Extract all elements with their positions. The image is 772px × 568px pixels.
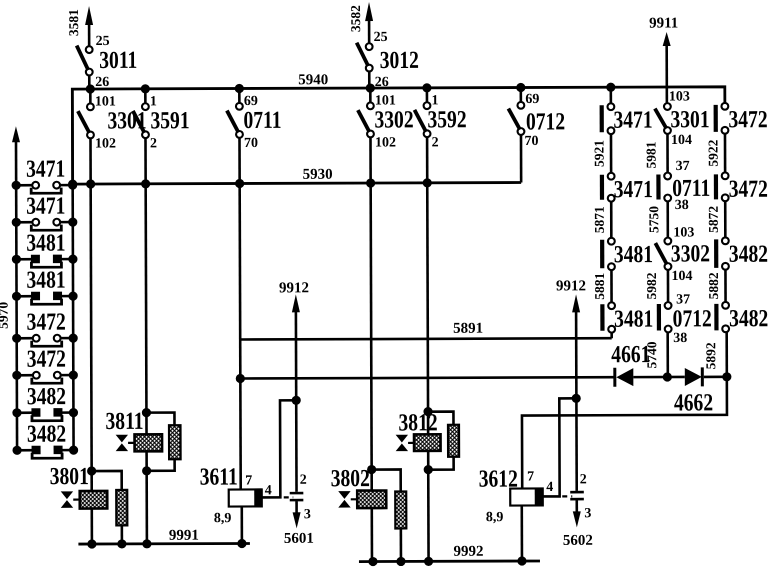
wire coil 3811 down to bus 9991 <box>145 451 148 543</box>
wire 5750 <box>666 202 669 238</box>
pin 70 of 0711 <box>244 136 258 151</box>
switch 0712 <box>508 102 565 135</box>
svg-text:5891: 5891 <box>453 321 483 337</box>
pin 4 of 3612 wire <box>542 398 576 496</box>
svg-text:3591: 3591 <box>150 106 189 134</box>
pin 7 of 3612 <box>527 469 534 484</box>
svg-text:3011: 3011 <box>99 46 137 74</box>
node 5970 label <box>0 302 11 329</box>
wire 5881 <box>610 270 613 302</box>
pin 102 of 3302 <box>375 135 396 150</box>
wire right-block left column down to bus 5891 <box>610 333 613 338</box>
svg-text:3581: 3581 <box>66 9 81 36</box>
node 5750 label <box>646 206 661 233</box>
node 5930 label <box>303 167 333 183</box>
wire 3581 feeder arrow <box>85 6 93 47</box>
relay contact 3472 (left column row 5) <box>12 307 78 346</box>
pin 38 of 0712 (right) <box>673 331 687 346</box>
svg-text:5872: 5872 <box>706 206 721 233</box>
pin 8,9 of 3611 <box>214 507 242 544</box>
wire 3302/102 down to coil 3802 <box>371 183 372 490</box>
node 5940 label <box>298 72 328 88</box>
node 9992 label <box>453 544 483 560</box>
pin 37 of 0711 (right) <box>676 159 690 174</box>
wire 5921 <box>610 134 613 172</box>
pin 4 of 3611 wire <box>261 400 296 498</box>
device 3611 <box>200 462 262 507</box>
relay contact 0711 (right block) <box>656 172 710 201</box>
switch 3592 <box>414 102 466 137</box>
wire 3012 pin26 to bus 5940 <box>368 72 371 88</box>
wire bus to diode 4661 (from 0711/70 node) <box>236 373 615 384</box>
svg-text:3811: 3811 <box>105 407 143 435</box>
pin 1 of 3592 <box>431 93 438 108</box>
junction dots on bus 5930 <box>68 178 432 188</box>
junction dots at diode nodes <box>663 372 732 381</box>
switch 0711 <box>227 103 282 138</box>
pin 103 of 3301 (right) <box>669 89 690 104</box>
wire 0711/70 down to bus 5891 and 3611 pin 7 <box>240 184 241 490</box>
wire 9911 feeder arrow <box>663 32 671 103</box>
wire 5871 <box>610 202 613 238</box>
svg-text:5871: 5871 <box>592 206 607 233</box>
resistor parallel to 3811 <box>142 408 181 476</box>
svg-text:3482: 3482 <box>729 304 768 332</box>
svg-text:3471: 3471 <box>26 155 65 183</box>
pin 3 label (5601 side) <box>304 507 311 522</box>
svg-text:3592: 3592 <box>427 105 466 133</box>
svg-text:2: 2 <box>150 136 157 151</box>
wire 9912 arrow (right) <box>572 294 580 398</box>
relay contact 3472 (right block right column row 1) <box>714 103 768 134</box>
svg-text:3472: 3472 <box>27 345 66 373</box>
pin 2 of 3592 <box>432 135 439 150</box>
svg-text:3801: 3801 <box>50 462 89 490</box>
wire 9912 arrow (left) <box>292 294 300 400</box>
svg-text:5892: 5892 <box>703 342 718 369</box>
relay coil 3811 <box>105 407 162 452</box>
relay contact 3481 (right block left column row 3) <box>600 238 653 270</box>
wire 3592 to buses <box>426 88 429 183</box>
resistor parallel to 3812 <box>423 407 459 474</box>
pin 26 of 3012 <box>375 75 389 90</box>
relay coil 3802 <box>331 464 387 508</box>
svg-text:3482: 3482 <box>27 382 66 410</box>
node 9991 label <box>169 528 199 544</box>
svg-text:5922: 5922 <box>705 139 720 166</box>
pin 104 of 3301 (right) <box>671 133 692 148</box>
relay contact 3471 (left column row 1) <box>11 154 77 193</box>
wire 3301 to buses <box>89 89 92 184</box>
svg-text:25: 25 <box>374 30 388 45</box>
svg-text:9912: 9912 <box>556 278 586 294</box>
switch 3301 <box>78 103 147 138</box>
wire 3591 to buses <box>144 89 147 184</box>
switch 3591 <box>133 103 190 138</box>
wire 3301/102 down to coil 3801 <box>91 184 92 491</box>
svg-text:3: 3 <box>304 507 311 522</box>
dashed link to connector 5601 <box>284 496 293 498</box>
wire diode 4662 to node 5892 <box>704 376 727 379</box>
wire coil 3802 to bus 9992 <box>370 508 373 561</box>
svg-text:104: 104 <box>671 269 692 284</box>
pin 2 label (3612 side) <box>580 472 587 487</box>
svg-text:2: 2 <box>300 473 307 488</box>
relay contact 3481 (right block left column row 4) <box>600 302 653 332</box>
wire bus 5940 <box>72 87 725 185</box>
svg-text:8,9: 8,9 <box>486 510 504 525</box>
svg-text:0712: 0712 <box>526 107 565 135</box>
pin 70 of 0712 <box>524 134 538 149</box>
pin 8,9 of 3612 <box>486 506 522 562</box>
svg-text:38: 38 <box>675 198 689 213</box>
pin 104 of 3302 (right) <box>671 269 692 284</box>
switch 3302 (right block) <box>655 237 710 269</box>
wire coil 3801 to bus 9991 <box>90 509 93 544</box>
svg-text:102: 102 <box>375 135 396 150</box>
relay coil 3801 <box>50 462 108 509</box>
svg-text:5750: 5750 <box>646 206 661 233</box>
diode 4662 <box>674 367 713 416</box>
svg-text:70: 70 <box>524 134 538 149</box>
pin 3 label (5602 side) <box>584 506 591 521</box>
junction dots on bus 9991 <box>87 539 246 549</box>
wire bus 5930 <box>73 183 521 185</box>
relay contact 3481 (left column row 3) <box>12 228 78 267</box>
svg-text:5970: 5970 <box>0 302 11 329</box>
pin 1 of 3591 <box>150 94 157 109</box>
node 5981 label <box>644 141 659 168</box>
wire bus 9992 <box>359 560 540 563</box>
wire left column right rail <box>72 89 73 450</box>
relay contact 3472 (right block right column row 2) <box>714 172 768 202</box>
svg-text:3481: 3481 <box>26 266 65 294</box>
svg-text:3611: 3611 <box>200 462 238 490</box>
svg-text:5981: 5981 <box>644 141 659 168</box>
svg-text:9911: 9911 <box>649 15 678 31</box>
pin 69 of 0711 <box>244 94 258 109</box>
wire 5981 <box>666 134 669 172</box>
connector terminal 2/3 (5601) <box>289 400 303 514</box>
switch 3012 <box>357 42 419 73</box>
svg-text:3302: 3302 <box>374 105 413 133</box>
svg-text:5940: 5940 <box>298 72 328 88</box>
junction dots on bus 9992 <box>368 556 526 566</box>
junction dot node above 3612 <box>572 394 581 403</box>
svg-text:103: 103 <box>673 225 694 240</box>
pin 103 of 3302 (right) <box>673 225 694 240</box>
svg-text:5881: 5881 <box>592 272 607 299</box>
device 3612 <box>479 464 543 506</box>
node 5892 label <box>703 342 718 369</box>
node 5982 label <box>644 272 659 299</box>
wire 5601 arrow down <box>293 512 301 528</box>
resistor parallel to 3802 <box>367 465 406 562</box>
svg-text:3472: 3472 <box>729 175 768 203</box>
dashed link to connector 5602 <box>562 495 572 497</box>
svg-text:4661: 4661 <box>611 340 650 368</box>
wire 5892 down to diode node <box>725 332 728 376</box>
svg-text:5601: 5601 <box>284 531 314 547</box>
relay contact 3482 (right block right column row 4) <box>714 302 768 332</box>
pin 7 of 3611 <box>245 473 252 488</box>
svg-text:7: 7 <box>245 473 252 488</box>
wire between diodes <box>633 376 684 379</box>
resistor parallel to 3801 <box>87 466 127 544</box>
svg-text:3471: 3471 <box>613 105 652 133</box>
svg-text:3302: 3302 <box>671 239 710 267</box>
relay contact 3481 (left column row 4) <box>12 265 78 304</box>
relay coil 3812 <box>396 408 441 451</box>
junction dots on bus 5940 <box>86 83 616 94</box>
svg-text:9992: 9992 <box>453 544 483 560</box>
svg-text:37: 37 <box>676 159 690 174</box>
svg-text:3301: 3301 <box>670 105 709 133</box>
wire bus 9991 <box>78 542 249 545</box>
wire 0711 to buses <box>238 89 241 184</box>
relay contact 3482 (right block right column row 3) <box>714 237 768 269</box>
wire 3302 to buses <box>369 88 372 183</box>
svg-text:8,9: 8,9 <box>214 511 232 526</box>
wire 5970 left rail with arrow <box>12 126 21 450</box>
junction dot node above 3611 <box>292 396 301 405</box>
svg-text:70: 70 <box>244 136 258 151</box>
svg-text:103: 103 <box>669 89 690 104</box>
svg-text:2: 2 <box>580 472 587 487</box>
pin 102 of 3301 <box>95 136 116 151</box>
svg-text:3481: 3481 <box>614 304 653 332</box>
svg-text:2: 2 <box>432 135 439 150</box>
svg-text:4662: 4662 <box>674 388 713 416</box>
pin 101 of 3302 <box>375 93 396 108</box>
relay contact 0712 (right block) <box>657 302 712 332</box>
wire 3591/2 down to coil 3811 <box>144 184 147 434</box>
wire 5602 arrow down <box>573 511 581 527</box>
svg-text:5602: 5602 <box>563 533 593 549</box>
node 9912 label (right) <box>556 278 586 294</box>
svg-text:3482: 3482 <box>27 420 66 448</box>
wire 3582 feeder arrow <box>365 2 373 44</box>
relay contact 3472 (left column row 6) <box>12 344 78 383</box>
node 5882 label <box>706 272 721 299</box>
svg-text:3482: 3482 <box>729 240 768 268</box>
node 5740 label <box>644 341 659 368</box>
svg-text:3612: 3612 <box>479 464 518 492</box>
pin 69 of 0712 <box>525 92 539 107</box>
svg-text:3582: 3582 <box>348 5 363 32</box>
svg-text:7: 7 <box>527 469 534 484</box>
svg-text:0711: 0711 <box>243 106 281 134</box>
wire 5922 <box>724 134 727 172</box>
svg-text:5982: 5982 <box>644 272 659 299</box>
switch 3301 (right block) <box>655 103 710 134</box>
svg-text:0712: 0712 <box>673 304 712 332</box>
node 9912 label (left) <box>279 280 309 296</box>
wire bus 5940 down to right-block left column <box>610 87 613 103</box>
svg-text:3012: 3012 <box>380 46 419 74</box>
switch 3011 <box>77 45 138 75</box>
node 5871 label <box>592 206 607 233</box>
svg-text:5930: 5930 <box>303 167 333 183</box>
connector terminal 2/3 (5602) <box>570 398 584 513</box>
pin 25 of 3012 <box>374 30 388 45</box>
relay contact 3471 (left column row 2) <box>12 191 78 230</box>
node 3581 label <box>66 9 81 36</box>
svg-text:5882: 5882 <box>706 272 721 299</box>
svg-text:104: 104 <box>671 133 692 148</box>
wire coil 3812 down to bus 9992 <box>427 450 430 561</box>
relay contact 3482 (left column row 8) <box>12 419 78 458</box>
svg-text:38: 38 <box>673 331 687 346</box>
svg-text:3802: 3802 <box>331 464 370 492</box>
wire bus 5891 <box>240 338 611 339</box>
svg-text:3471: 3471 <box>614 175 653 203</box>
svg-text:9912: 9912 <box>279 280 309 296</box>
wire 0712 pin69 to bus / pin70 down to bus 5930 <box>520 88 523 183</box>
pin 2 of 3591 <box>150 136 157 151</box>
diode 4661 <box>611 340 650 387</box>
node 9911 label <box>649 15 678 31</box>
relay contact 3471 (right block left column row 2) <box>600 173 653 203</box>
node 5922 label <box>705 139 720 166</box>
wire 5882 <box>724 270 727 302</box>
pin 25 of 3011 <box>96 34 110 49</box>
node 5881 label <box>592 272 607 299</box>
svg-text:3471: 3471 <box>26 192 65 220</box>
svg-text:102: 102 <box>95 136 116 151</box>
node 5601 label <box>284 531 314 547</box>
relay contact 3482 (left column row 7) <box>12 382 78 421</box>
wire 3011 pin26 to bus 5940 <box>88 76 91 89</box>
svg-text:69: 69 <box>525 92 539 107</box>
pin 101 of 3301 <box>95 94 116 109</box>
wire 5872 <box>724 201 727 237</box>
pin 37 of 0712 (right) <box>676 292 690 307</box>
pin 2 label (3611 side) <box>300 473 307 488</box>
node 5891 label <box>453 321 483 337</box>
node 5921 label <box>591 140 606 167</box>
pin 38 of 0711 (right) <box>675 198 689 213</box>
switch 3302 <box>358 102 414 137</box>
wire 5982 <box>667 270 670 302</box>
svg-text:4: 4 <box>546 480 553 495</box>
svg-text:9991: 9991 <box>169 528 199 544</box>
wire from 5892 node down and left to 3612 pin 7 <box>522 377 727 489</box>
svg-text:3: 3 <box>584 506 591 521</box>
svg-text:3472: 3472 <box>27 308 66 336</box>
wire 3592/2 down to coil 3812 <box>426 183 429 434</box>
svg-text:5921: 5921 <box>591 140 606 167</box>
node 5602 label <box>563 533 593 549</box>
node 5872 label <box>706 206 721 233</box>
pin 26 of 3011 <box>95 75 109 90</box>
relay contact 3471 (right block left column row 1) <box>600 103 653 134</box>
wire 5740 down to diode node <box>666 333 669 377</box>
svg-text:3481: 3481 <box>26 229 65 257</box>
svg-text:3472: 3472 <box>728 105 767 133</box>
svg-text:3481: 3481 <box>614 240 653 268</box>
node 3582 label <box>348 5 363 32</box>
